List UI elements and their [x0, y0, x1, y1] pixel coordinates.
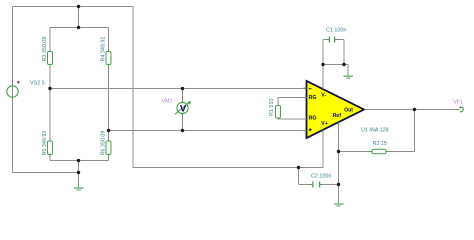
wire C1 ground drop	[347, 65, 349, 76]
resistor R6	[106, 141, 111, 155]
svg-text:R3 350.09: R3 350.09	[42, 37, 48, 62]
wire V+ pin drop	[322, 130, 324, 168]
wire supply vertical x=133	[132, 7, 134, 168]
junction node dots	[48, 5, 416, 186]
wire R6 leads column	[108, 131, 110, 161]
wire R1 bottom lead	[278, 118, 306, 119]
node V- left	[321, 63, 324, 66]
wire Ref line vertical	[338, 122, 340, 203]
wire C1 right vertical	[343, 40, 345, 65]
wire C2 right lead	[320, 184, 338, 186]
wire output	[365, 109, 460, 111]
op-amp U1 body	[307, 81, 365, 138]
wire bridge upper rail	[50, 27, 109, 29]
wire R2 right lead	[386, 151, 415, 153]
node C2 top	[297, 166, 300, 169]
node VM1 top	[181, 87, 184, 90]
op-amp pin tick RG bottom	[304, 118, 307, 120]
wire C2 branch drop	[298, 168, 300, 185]
node Ref / C2	[337, 183, 340, 186]
svg-text:VF1: VF1	[453, 99, 463, 105]
op-amp pin tick out	[365, 109, 368, 111]
wire V- to ground horizontal	[323, 64, 348, 66]
node ground left	[77, 171, 80, 174]
wire ground drop from bridge bottom	[78, 161, 80, 188]
wire V- pin up	[322, 65, 324, 90]
svg-text:C1 100n: C1 100n	[326, 28, 346, 34]
wire C2 left lead	[299, 184, 313, 186]
resistor R1 gain	[276, 106, 281, 119]
svg-text:VS2 5: VS2 5	[30, 81, 45, 87]
op-amp pin tick Ref bottom	[338, 122, 340, 125]
svg-text:VM1: VM1	[162, 99, 173, 105]
svg-text:V+: V+	[321, 121, 328, 127]
resistor R2	[372, 149, 386, 154]
svg-text:RG: RG	[309, 116, 317, 122]
wire R5 leads column	[49, 89, 51, 161]
op-amp pin tick RG top	[304, 97, 307, 99]
svg-text:C2 100n: C2 100n	[311, 174, 331, 180]
wire supply horizontal to V+	[133, 167, 323, 169]
svg-text:V-: V-	[321, 93, 326, 99]
svg-text:R2 15: R2 15	[373, 141, 387, 147]
svg-text:U1 INA 128: U1 INA 128	[361, 128, 389, 134]
voltage source VS2	[7, 86, 18, 97]
wire bridge top vertical	[78, 7, 80, 28]
wire R3 leads column	[49, 28, 51, 89]
node output / feedback	[413, 108, 416, 111]
svg-text:R1 510: R1 510	[269, 99, 275, 116]
resistor R3	[48, 52, 53, 65]
svg-text:R6 350.09: R6 350.09	[100, 131, 106, 156]
node VM1 bottom	[181, 129, 184, 132]
node top rail / VS2+	[77, 5, 80, 8]
node bridge top	[77, 26, 80, 29]
VS2 plus sign	[17, 81, 20, 84]
wire bridge bottom connector	[50, 160, 109, 162]
wire voltmeter branch	[182, 89, 184, 131]
component lead ticks (green terminal marks)	[13, 40, 460, 185]
op-amp pin tick in+	[304, 130, 307, 132]
node Ref / R2	[337, 150, 340, 153]
ground (C1 / V-)	[344, 73, 354, 79]
wire C1 top left lead	[323, 39, 329, 41]
wire feedback vertical	[414, 110, 416, 152]
capacitor C1 plates	[329, 37, 334, 43]
voltmeter VM1	[175, 101, 191, 115]
svg-text:RG: RG	[309, 95, 317, 101]
wire in- rail to amp	[50, 88, 306, 90]
op-amp pin tick V- top	[322, 87, 324, 90]
wire left rail (VS2 branch)	[12, 7, 14, 173]
resistor R5	[48, 141, 53, 155]
svg-text:V: V	[180, 103, 187, 114]
svg-text:Out: Out	[344, 108, 353, 114]
wire in+ rail to amp	[109, 130, 307, 132]
node bridge left mid	[48, 87, 51, 90]
capacitor C2 plates	[313, 182, 320, 188]
wire R4 leads column	[108, 28, 110, 131]
resistor R4	[106, 52, 111, 65]
node V- right	[342, 63, 345, 66]
ground (Ref line)	[334, 200, 344, 206]
wire VS2 bottom to ground node	[13, 172, 79, 174]
node bridge bottom	[77, 159, 80, 162]
wire R1 top lead	[278, 98, 306, 106]
svg-text:R4 349.92: R4 349.92	[100, 37, 106, 62]
op-amp pin tick in-	[304, 87, 307, 89]
VM1 positive red tick	[182, 97, 184, 99]
op-amp pin tick V+ bottom	[322, 130, 324, 133]
svg-text:Ref: Ref	[333, 113, 342, 119]
ground (bridge bottom)	[74, 184, 84, 190]
svg-text:R5 349.92: R5 349.92	[42, 131, 48, 156]
pin label minus	[309, 88, 312, 89]
wire C1 left vertical	[322, 40, 324, 65]
wire C1 top right lead	[335, 39, 344, 41]
pin label plus	[309, 128, 312, 131]
wire top rail VS2+ to supply corner	[13, 6, 134, 8]
VS2 positive red tick	[12, 80, 14, 82]
node bridge right mid	[107, 129, 110, 132]
wire R2 left lead	[339, 151, 373, 153]
output pin VF1	[460, 107, 463, 112]
